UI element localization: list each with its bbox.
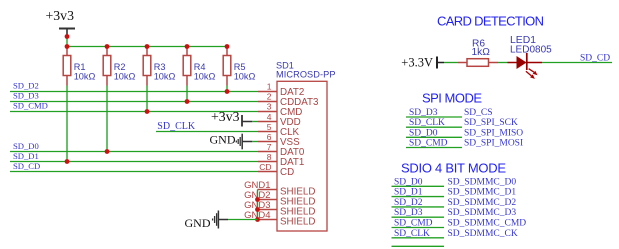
- svg-text:R5: R5: [234, 62, 246, 72]
- resistor R3: [143, 47, 175, 86]
- svg-text:SHIELD: SHIELD: [280, 217, 315, 228]
- svg-text:10kΩ: 10kΩ: [74, 72, 96, 82]
- svg-text:SD_CLK: SD_CLK: [394, 229, 430, 239]
- LED LED1: [508, 35, 553, 79]
- junction R2 SD_D0: [105, 149, 110, 154]
- ground (pin 6 VSS): [210, 133, 253, 150]
- junction R1 SD_D1: [65, 159, 70, 164]
- svg-text:10kΩ: 10kΩ: [114, 72, 136, 82]
- wire SPI row 4: [406, 147, 462, 149]
- pin GND4 SHIELD: [244, 210, 315, 228]
- svg-text:8: 8: [267, 152, 272, 162]
- svg-text:SPI MODE: SPI MODE: [422, 91, 482, 106]
- wire R4 to SD_D3: [186, 86, 188, 102]
- junction bus R2: [105, 44, 110, 49]
- svg-text:SD_SPI_SCK: SD_SPI_SCK: [464, 118, 518, 128]
- junction bus R1: [65, 44, 70, 49]
- svg-text:SD_D1: SD_D1: [13, 151, 39, 161]
- svg-text:3: 3: [267, 102, 272, 112]
- svg-text:R2: R2: [114, 62, 126, 72]
- svg-text:GND: GND: [210, 133, 236, 147]
- wire R6 to LED1: [498, 62, 508, 64]
- junction R5 SD_D2: [225, 89, 230, 94]
- pin 2 CDDAT3: [258, 92, 319, 109]
- pin 4 VDD: [258, 112, 301, 128]
- wire bus +3v3: [67, 46, 227, 48]
- svg-text:R1: R1: [74, 62, 86, 72]
- wire GND to pin 6: [252, 141, 258, 143]
- wire SD_CD: [10, 171, 258, 173]
- svg-text:SD_SDMMC_D3: SD_SDMMC_D3: [448, 208, 517, 218]
- resistor R2: [103, 47, 135, 86]
- resistor R4: [183, 47, 215, 86]
- junction GND2: [255, 197, 260, 202]
- wire SPI row 2: [406, 126, 462, 128]
- wire R5 to SD_D2: [226, 86, 228, 92]
- svg-text:SD_D3: SD_D3: [13, 91, 39, 101]
- power +3.3V: [401, 56, 444, 70]
- wire SDIO row 3: [392, 206, 445, 208]
- resistor R6: [458, 39, 498, 67]
- connector SD1 MICROSD-PP: [276, 61, 336, 232]
- svg-text:SD_D1: SD_D1: [394, 188, 423, 198]
- wire R2 to SD_D0: [106, 86, 108, 152]
- wire SDIO row 6: [392, 237, 445, 239]
- wire SD_D3: [10, 101, 258, 103]
- resistor R5: [223, 47, 255, 86]
- power +3v3 (pin 4 VDD): [211, 109, 252, 127]
- svg-text:+3.3V: +3.3V: [401, 56, 433, 70]
- pin 6 VSS: [258, 132, 300, 148]
- wire SPI row 3: [406, 136, 462, 138]
- wire +3v3 to pin 4: [252, 121, 258, 123]
- svg-text:SD_CLK: SD_CLK: [157, 121, 196, 132]
- wire R1 to SD_D1: [66, 86, 68, 162]
- wire shield bus vertical: [257, 190, 259, 220]
- junction +3v3 pin: [65, 34, 70, 39]
- svg-text:CD: CD: [280, 167, 294, 178]
- svg-text:SD_D0: SD_D0: [394, 177, 423, 187]
- svg-text:SD_SPI_MISO: SD_SPI_MISO: [464, 128, 523, 138]
- pin 7 DAT0: [258, 142, 305, 158]
- junction bus R3: [145, 44, 150, 49]
- wire SD_D2: [10, 91, 258, 93]
- wire SDIO row 4: [392, 216, 445, 218]
- pin GND3 SHIELD: [244, 200, 315, 218]
- junction GND4: [255, 217, 260, 222]
- svg-text:+3v3: +3v3: [211, 109, 240, 124]
- svg-text:LED0805: LED0805: [510, 45, 552, 56]
- svg-text:SD_SDMMC_D1: SD_SDMMC_D1: [448, 188, 517, 198]
- svg-text:SD_D2: SD_D2: [394, 198, 423, 208]
- resistor R1: [63, 47, 95, 86]
- svg-text:MICROSD-PP: MICROSD-PP: [276, 69, 336, 79]
- svg-text:SD_D2: SD_D2: [13, 81, 39, 91]
- svg-text:4: 4: [267, 112, 272, 122]
- svg-text:2: 2: [267, 92, 272, 102]
- wire SDIO row 1: [392, 185, 445, 187]
- pin 5 CLK: [258, 122, 300, 138]
- svg-text:SD_CD: SD_CD: [580, 54, 610, 64]
- junction R4 SD_D3: [185, 99, 190, 104]
- wire SDIO row 5: [392, 227, 445, 229]
- svg-text:10kΩ: 10kΩ: [234, 72, 256, 82]
- junction R3 SD_CMD: [145, 109, 150, 114]
- wire SD_CLK: [156, 131, 258, 133]
- svg-text:GND: GND: [185, 216, 211, 230]
- wire SD_CMD: [10, 111, 258, 113]
- svg-text:1kΩ: 1kΩ: [472, 47, 491, 58]
- svg-text:SD_SDMMC_CMD: SD_SDMMC_CMD: [448, 219, 527, 229]
- wire R3 to SD_CMD: [146, 86, 148, 112]
- wire +3.3V to R6: [444, 62, 458, 64]
- svg-text:R3: R3: [154, 62, 166, 72]
- svg-text:CD: CD: [259, 162, 271, 172]
- svg-text:5: 5: [267, 122, 272, 132]
- junction bus R4: [185, 44, 190, 49]
- svg-text:+3v3: +3v3: [46, 8, 75, 23]
- svg-text:SD_D3: SD_D3: [394, 208, 423, 218]
- svg-text:SD_CMD: SD_CMD: [409, 139, 448, 149]
- power +3v3 (top): [46, 8, 76, 37]
- svg-text:7: 7: [267, 142, 272, 152]
- svg-text:SD_SDMMC_CK: SD_SDMMC_CK: [448, 229, 518, 239]
- pin GND1 SHIELD: [244, 180, 315, 198]
- pin GND2 SHIELD: [244, 190, 315, 208]
- svg-text:SD_D0: SD_D0: [409, 128, 438, 138]
- wire +3v3 to bus: [66, 37, 68, 47]
- svg-text:10kΩ: 10kΩ: [194, 72, 216, 82]
- svg-text:SD_SDMMC_D2: SD_SDMMC_D2: [448, 198, 517, 208]
- svg-text:R4: R4: [194, 62, 206, 72]
- junction bus R5: [225, 44, 230, 49]
- svg-text:SD_CD: SD_CD: [13, 161, 40, 171]
- pin 8 DAT1: [258, 152, 304, 168]
- svg-text:SD_CMD: SD_CMD: [13, 101, 48, 111]
- wire GND to shield bus: [228, 219, 258, 221]
- svg-text:SD_CLK: SD_CLK: [409, 118, 445, 128]
- wire SD_D1: [10, 161, 258, 163]
- svg-text:SD_SPI_MOSI: SD_SPI_MOSI: [464, 139, 523, 149]
- wire SPI row 1: [406, 116, 462, 118]
- pin 3 CMD: [258, 102, 302, 119]
- svg-text:SD_D3: SD_D3: [409, 108, 438, 118]
- svg-text:CARD DETECTION: CARD DETECTION: [437, 14, 544, 29]
- svg-text:SD_CS: SD_CS: [464, 108, 493, 118]
- svg-text:6: 6: [267, 132, 272, 142]
- wire SDIO row 2: [392, 196, 445, 198]
- svg-text:SD_CMD: SD_CMD: [394, 219, 433, 229]
- svg-text:SD_SDMMC_D0: SD_SDMMC_D0: [448, 177, 517, 187]
- svg-text:SD_D0: SD_D0: [13, 141, 39, 151]
- wire SDIO row 7 (cropped): [392, 245, 445, 247]
- pin 1 DAT2: [258, 82, 304, 99]
- pin CD: [258, 162, 294, 178]
- ground (shield): [185, 211, 229, 231]
- wire LED1 to SD_CD: [542, 62, 612, 64]
- svg-text:10kΩ: 10kΩ: [154, 72, 176, 82]
- junction GND3: [255, 207, 260, 212]
- svg-text:1: 1: [267, 82, 272, 92]
- svg-text:SDIO 4 BIT MODE: SDIO 4 BIT MODE: [401, 161, 506, 176]
- wire SD_D0: [10, 151, 258, 153]
